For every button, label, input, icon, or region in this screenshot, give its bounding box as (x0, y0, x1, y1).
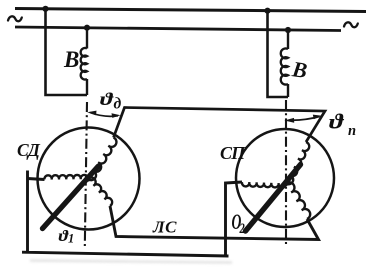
svg-text:п: п (348, 123, 356, 139)
svg-text:ЛС: ЛС (152, 218, 177, 237)
svg-text:д: д (114, 96, 122, 113)
svg-text:В: В (63, 47, 79, 72)
svg-text:СД: СД (17, 140, 41, 160)
svg-text:2: 2 (239, 219, 245, 236)
svg-text:ϑ: ϑ (329, 110, 344, 134)
svg-text:СП: СП (220, 143, 246, 163)
svg-text:1: 1 (68, 232, 74, 246)
